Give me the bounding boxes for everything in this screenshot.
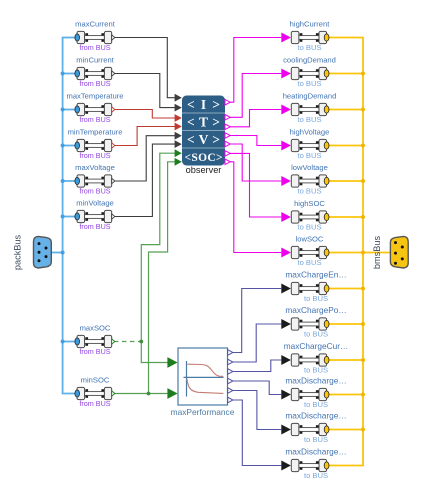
svg-text:to BUS: to BUS xyxy=(297,79,321,88)
observer input I1 xyxy=(175,94,182,102)
svg-text:from BUS: from BUS xyxy=(79,151,110,160)
svg-text:lowSOC: lowSOC xyxy=(296,234,324,243)
svg-text:to BUS: to BUS xyxy=(304,400,328,409)
wire bus stub to to BUS at y=360 xyxy=(329,359,364,361)
maxPerformance input 1 xyxy=(167,357,177,368)
junction yellow at y=217 xyxy=(361,215,365,219)
svg-text:minSOC: minSOC xyxy=(81,375,110,384)
junction yellow at y=73.5 xyxy=(361,72,365,76)
wire bus stub to from BUS at y=216.5 xyxy=(62,216,75,218)
wire bus stub to to BUS at y=394.5 xyxy=(329,394,364,396)
svg-text:from BUS: from BUS xyxy=(79,115,110,124)
to BUS block maxChargeCur… xyxy=(281,354,329,366)
junction yellow at y=360 xyxy=(361,358,365,362)
from BUS block maxVoltage xyxy=(75,175,115,187)
wire minVoltage to observer V2 xyxy=(114,144,175,216)
from BUS block minSOC xyxy=(75,387,115,399)
junction yellow at y=324 xyxy=(361,322,365,326)
to BUS block maxChargePo… xyxy=(281,318,329,330)
wire bus stub to to BUS at y=217 xyxy=(329,216,364,218)
svg-text:minCurrent: minCurrent xyxy=(76,55,114,64)
junction minSOC xyxy=(147,392,151,396)
wire bus stub to to BUS at y=465.5 xyxy=(329,465,364,467)
wire bus stub to to BUS at y=288.5 xyxy=(329,288,364,290)
svg-text:from BUS: from BUS xyxy=(79,347,110,356)
junction maxSOC xyxy=(139,340,143,344)
svg-text:maxChargeCur…: maxChargeCur… xyxy=(284,341,349,351)
wire bus stub to from BUS at y=145.5 xyxy=(62,145,75,147)
observer output highSOC xyxy=(225,151,230,157)
observer input V1 xyxy=(175,132,182,140)
junction yellow at y=109.5 xyxy=(361,108,365,112)
wire maxCurrent to observer I1 xyxy=(114,38,175,98)
wire bus stub to to BUS at y=324 xyxy=(329,323,364,325)
svg-text:from BUS: from BUS xyxy=(79,222,110,231)
svg-text:from BUS: from BUS xyxy=(79,79,110,88)
to BUS block lowVoltage xyxy=(281,175,329,187)
svg-text:to BUS: to BUS xyxy=(297,115,321,124)
wire bus stub to from BUS at y=181 xyxy=(62,180,75,182)
maxPerformance output 4 xyxy=(228,378,233,384)
maxPerformance input 2 xyxy=(167,388,177,399)
wire maxPerformance.out6 xyxy=(233,400,282,466)
from BUS block minVoltage xyxy=(75,210,115,222)
svg-text:observer: observer xyxy=(186,165,222,175)
from BUS block maxSOC xyxy=(75,335,115,347)
observer output lowSOC xyxy=(225,159,230,165)
svg-text:to BUS: to BUS xyxy=(297,43,321,52)
to BUS block highSOC xyxy=(281,211,329,223)
svg-text:maxPerformance: maxPerformance xyxy=(171,407,235,417)
wire bus stub to to BUS at y=37.5 xyxy=(329,37,364,39)
wire bus stub to from BUS at y=393.5 xyxy=(62,393,75,395)
wire bus stub to to BUS at y=429.5 xyxy=(329,429,364,431)
to BUS block highVoltage xyxy=(281,139,329,151)
svg-text:from BUS: from BUS xyxy=(79,43,110,52)
wire bus stub to from BUS at y=341.5 xyxy=(62,341,75,343)
wire bus stub to from BUS at y=73.5 xyxy=(62,73,75,75)
maxPerformance output 5 xyxy=(228,388,233,394)
svg-text:bmsBus: bmsBus xyxy=(372,236,382,270)
svg-text:maxChargeEn…: maxChargeEn… xyxy=(285,269,346,279)
to BUS block maxDischarge… xyxy=(281,423,329,435)
wire maxTemperature to observer T1 xyxy=(114,110,175,119)
svg-text:highVoltage: highVoltage xyxy=(290,127,330,136)
svg-text:minTemperature: minTemperature xyxy=(68,127,123,136)
observer input T1 xyxy=(175,114,182,122)
junction yellow at y=145.5 xyxy=(361,144,365,148)
svg-text:maxDischarge…: maxDischarge… xyxy=(285,410,346,420)
to BUS block heatingDemand xyxy=(281,103,329,115)
wire bus stub to from BUS at y=37.5 xyxy=(62,37,75,39)
wire minSOC to observer SOC2 xyxy=(149,162,176,394)
wire maxSOC to observer SOC1 and maxPerformance in1 xyxy=(141,153,175,362)
svg-text:from BUS: from BUS xyxy=(79,187,110,196)
wire bus line to bmsBus xyxy=(363,252,390,254)
svg-text:to BUS: to BUS xyxy=(297,223,321,232)
svg-text:to BUS: to BUS xyxy=(304,366,328,375)
svg-text:heatingDemand: heatingDemand xyxy=(283,91,337,100)
svg-text:maxTemperature: maxTemperature xyxy=(67,91,124,100)
observer block U1 xyxy=(182,96,225,166)
wire maxPerformance.out1 xyxy=(233,289,282,353)
wire minTemperature to observer T2 xyxy=(114,127,175,146)
svg-text:highCurrent: highCurrent xyxy=(290,19,331,28)
maxPerformance output 2 xyxy=(228,359,233,365)
packBus connector xyxy=(34,236,52,268)
svg-text:minVoltage: minVoltage xyxy=(76,198,114,207)
observer input T2 xyxy=(175,123,182,131)
wire observer.lowVoltage xyxy=(230,144,281,181)
to BUS block lowSOC xyxy=(281,246,329,258)
svg-text:packBus: packBus xyxy=(13,234,23,270)
svg-text:maxCurrent: maxCurrent xyxy=(75,19,116,28)
junction blue at y=341.5 xyxy=(61,340,65,344)
junction blue at y=181 xyxy=(61,179,65,183)
maxPerformance output 3 xyxy=(228,369,233,375)
from BUS block maxCurrent xyxy=(75,31,115,43)
junction blue at y=73.5 xyxy=(61,72,65,76)
svg-text:to BUS: to BUS xyxy=(304,471,328,480)
wire observer.highSOC xyxy=(230,153,281,217)
svg-text:coolingDemand: coolingDemand xyxy=(283,55,336,64)
wire observer.coolingDemand xyxy=(230,74,281,118)
wire maxPerformance.out5 xyxy=(233,391,282,430)
svg-text:<SOC>: <SOC> xyxy=(185,152,223,164)
svg-text:maxSOC: maxSOC xyxy=(80,323,111,332)
to BUS block maxChargeEn… xyxy=(281,282,329,294)
svg-text:< V >: < V > xyxy=(187,132,220,147)
observer input SOC1 xyxy=(175,149,182,157)
junction yellow at y=288.5 xyxy=(361,287,365,291)
wire maxPerformance.out3 xyxy=(233,360,282,372)
svg-text:< I >: < I > xyxy=(187,97,220,112)
wire observer.lowSOC xyxy=(230,162,281,253)
observer output lowVoltage xyxy=(225,141,230,147)
wire minCurrent to observer I2 xyxy=(114,74,175,108)
observer output heatingDemand xyxy=(225,124,230,130)
to BUS block maxDischarge… xyxy=(281,388,329,400)
svg-text:to BUS: to BUS xyxy=(304,294,328,303)
wire maxVoltage to observer V1 xyxy=(114,136,175,181)
to BUS block maxDischarge… xyxy=(281,459,329,471)
wire packBus to bus line xyxy=(51,252,63,254)
svg-text:maxChargePo…: maxChargePo… xyxy=(285,305,346,315)
junction yellow at y=394.5 xyxy=(361,393,365,397)
junction yellow at y=429.5 xyxy=(361,428,365,432)
from BUS block minTemperature xyxy=(75,139,115,151)
svg-text:highSOC: highSOC xyxy=(294,199,325,208)
svg-text:to BUS: to BUS xyxy=(304,330,328,339)
junction blue at y=145.5 xyxy=(61,144,65,148)
to BUS block highCurrent xyxy=(281,31,329,43)
to BUS block coolingDemand xyxy=(281,67,329,79)
svg-text:to BUS: to BUS xyxy=(297,151,321,160)
bmsBus bus line (yellow vertical) xyxy=(362,38,364,466)
junction yellow at y=181 xyxy=(361,179,365,183)
wire maxPerformance.out2 xyxy=(233,324,282,362)
wire observer.highCurrent xyxy=(230,38,281,103)
junction blue at y=216.5 xyxy=(61,215,65,219)
junction blue at y=109.5 xyxy=(61,108,65,112)
wire maxPerformance.out4 xyxy=(233,381,282,395)
wire bus stub to to BUS at y=181 xyxy=(329,180,364,182)
from BUS block maxTemperature xyxy=(75,103,115,115)
svg-text:to BUS: to BUS xyxy=(297,258,321,267)
svg-text:to BUS: to BUS xyxy=(304,435,328,444)
observer input SOC2 xyxy=(175,158,182,166)
wire bus stub to to BUS at y=252.5 xyxy=(329,252,364,254)
observer output highCurrent xyxy=(225,99,230,105)
observer input I2 xyxy=(175,104,182,112)
wire observer.heatingDemand xyxy=(230,110,281,127)
wire maxSOC dashed segment xyxy=(114,341,141,343)
wire bus stub to from BUS at y=109.5 xyxy=(62,109,75,111)
svg-text:< T >: < T > xyxy=(187,114,220,129)
bmsBus connector xyxy=(390,236,408,268)
svg-text:from BUS: from BUS xyxy=(79,399,110,408)
svg-text:lowVoltage: lowVoltage xyxy=(291,163,328,172)
observer output coolingDemand xyxy=(225,115,230,121)
svg-text:maxDischarge…: maxDischarge… xyxy=(285,446,346,456)
wire minSOC to maxPerformance in2 xyxy=(114,393,168,395)
svg-text:to BUS: to BUS xyxy=(297,187,321,196)
maxPerformance output 6 xyxy=(228,397,233,403)
svg-text:maxVoltage: maxVoltage xyxy=(75,163,115,172)
observer output highVoltage xyxy=(225,133,230,139)
wire observer.highVoltage xyxy=(230,136,281,146)
wire bus stub to to BUS at y=145.5 xyxy=(329,145,364,147)
from BUS block minCurrent xyxy=(75,67,115,79)
junction blue at y=252.5 xyxy=(61,251,65,255)
wire bus stub to to BUS at y=73.5 xyxy=(329,73,364,75)
wire bus stub to to BUS at y=109.5 xyxy=(329,109,364,111)
packBus bus line (blue vertical) xyxy=(62,38,64,394)
maxPerformance output 1 xyxy=(228,350,233,356)
junction yellow at y=252.5 xyxy=(361,251,365,255)
observer input V2 xyxy=(175,140,182,148)
svg-text:maxDischarge…: maxDischarge… xyxy=(285,375,346,385)
maxPerformance block U2 xyxy=(178,348,228,405)
